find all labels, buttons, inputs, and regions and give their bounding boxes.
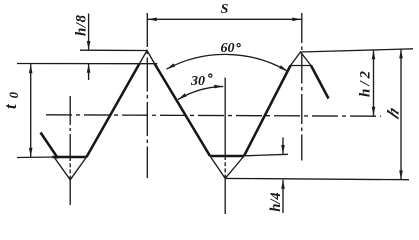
- node: left valley centerline (dash-dot, dashed through hidden root): [69, 96, 71, 205]
- dimension h/8 crest truncation: arrows outside: [87, 14, 91, 81]
- wire: sharp-tip level reference line left of left peak (top of h8): [80, 49, 147, 51]
- wire: right tooth right flank (thick profile): [311, 66, 329, 99]
- wire: right tooth left flank (thick profile): [244, 66, 291, 157]
- svg-text:h/4: h/4: [268, 192, 284, 211]
- wire: sharp-tip level reference line right of right peak (top of h2 and h): [301, 49, 414, 52]
- wire: crest reference line extending left (top of t0 / bottom of h8): [17, 63, 157, 65]
- svg-text:30: 30: [190, 74, 205, 89]
- node: central valley theoretical sharp root (thin V): [210, 156, 244, 178]
- dimension 60deg thread angle: arc with arrows: [166, 54, 287, 71]
- node: horizontal axis centerline (dash-dot): [46, 115, 381, 116]
- wire: root flat reference line at far left (bottom of t0): [17, 156, 57, 159]
- node: left tooth theoretical sharp crest (thin V): [140, 51, 155, 64]
- node: right peak centerline / S extension (dash-dot): [301, 13, 303, 161]
- wire: right tooth crest flat line: [290, 65, 313, 67]
- svg-text:h/8: h/8: [73, 15, 89, 37]
- dimension t0 thread depth: [29, 64, 33, 157]
- node: left valley theoretical sharp root (thin V): [54, 157, 87, 180]
- dimension h/2: tip level to axis: [372, 50, 376, 116]
- node: central valley centerline / 30deg reference (dashed through hidden root): [224, 78, 226, 215]
- dimension h: full sharp thread height: [399, 49, 403, 179]
- wire: left tooth left flank (thick profile): [87, 64, 140, 158]
- dimension 30deg half-angle: arc with arrows: [178, 85, 223, 100]
- svg-text:60: 60: [221, 41, 235, 56]
- wire: sharp-root level reference line to the right (bottom of h and h4): [225, 178, 409, 179]
- wire: left valley root flat (thick profile): [52, 156, 86, 159]
- svg-text:S: S: [221, 2, 229, 17]
- wire: central valley root flat (thick profile): [210, 155, 244, 158]
- node: left peak centerline / S extension (dash-dot): [146, 13, 148, 178]
- wire: left partial flank (thick profile): [41, 133, 59, 159]
- wire: root flat reference extension to h4 dimension: [244, 154, 288, 156]
- wire: left tooth right flank (thick profile): [155, 64, 211, 157]
- node: right tooth theoretical sharp crest (thin V): [291, 52, 312, 66]
- dimension h/4 root truncation: arrows outside: [281, 137, 285, 213]
- dimension S (pitch): dimension line with arrows: [147, 18, 301, 22]
- svg-text:h/2: h/2: [358, 68, 374, 97]
